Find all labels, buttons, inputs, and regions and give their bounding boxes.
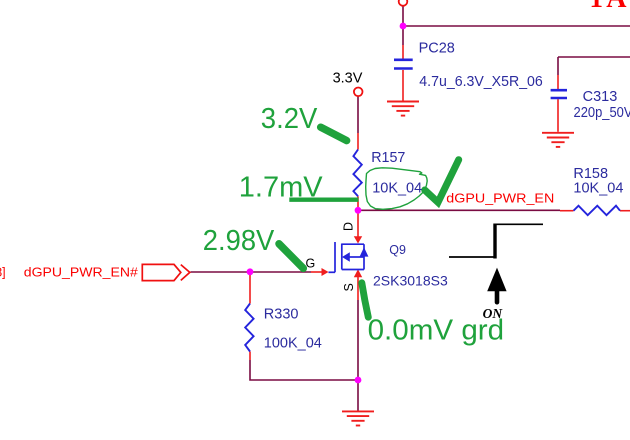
svg-text:1.7mV: 1.7mV [239,172,323,204]
svg-text:S: S [342,283,356,291]
svg-text:220p_50V: 220p_50V [574,105,630,121]
svg-text:PC28: PC28 [419,40,455,56]
svg-text:100K_04: 100K_04 [264,335,322,351]
svg-text:2.98V: 2.98V [203,225,275,257]
svg-text:A: A [606,0,627,14]
svg-text:3]: 3] [0,265,6,279]
svg-text:10K_04: 10K_04 [573,181,623,197]
svg-text:Q9: Q9 [389,243,406,257]
svg-text:1: 1 [590,0,604,13]
svg-text:2SK3018S3: 2SK3018S3 [373,272,448,288]
svg-text:4.7u_6.3V_X5R_06: 4.7u_6.3V_X5R_06 [419,74,543,90]
svg-text:dGPU_PWR_EN#: dGPU_PWR_EN# [24,266,138,280]
svg-text:R330: R330 [264,306,299,322]
svg-text:R158: R158 [573,166,608,182]
svg-text:D: D [342,222,356,231]
svg-text:3.3V: 3.3V [333,70,363,86]
svg-text:R157: R157 [371,150,405,166]
svg-text:G: G [306,257,316,271]
svg-text:0.0mV grd: 0.0mV grd [368,314,505,346]
svg-text:10K_04: 10K_04 [372,181,422,197]
svg-text:C313: C313 [583,89,618,105]
svg-text:dGPU_PWR_EN: dGPU_PWR_EN [446,192,554,206]
svg-text:3.2V: 3.2V [261,103,318,135]
